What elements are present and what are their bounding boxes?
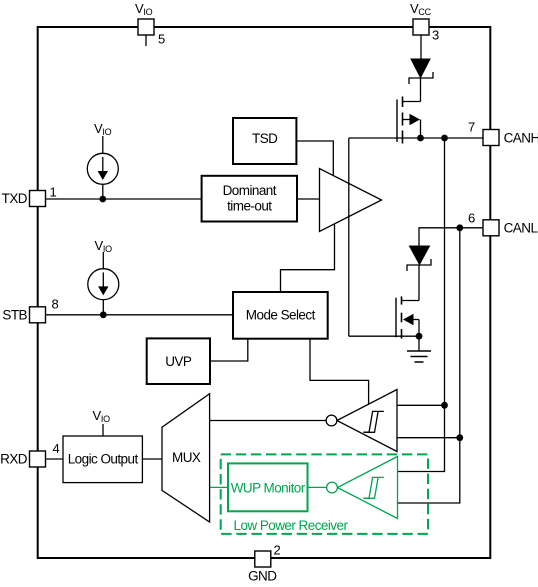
wire Mode Select to receiver enable [310, 339, 369, 405]
svg-text:WUP Monitor: WUP Monitor [231, 480, 306, 495]
zener diode D2 [410, 246, 430, 265]
box UVP [147, 338, 210, 384]
svg-text:Logic Output: Logic Output [68, 452, 139, 467]
transistor M1 (high-side) [396, 100, 398, 143]
wire Dominant time-out to driver input [297, 198, 320, 200]
wire gate rail from driver to MOSFET gates [348, 138, 350, 336]
wire RXD net (pin4 to Logic Output) [45, 458, 63, 460]
op-amp driver [320, 169, 382, 232]
wire current source I1 to TXD net [102, 184, 104, 199]
wire VIO stub above current source I1 [102, 136, 104, 153]
svg-text:TSD: TSD [252, 131, 278, 146]
wire VCC to zener D1 [420, 35, 422, 59]
junction receiver CANL input [456, 434, 463, 441]
svg-text:7: 7 [468, 120, 475, 135]
junction receiver CANH input [441, 402, 448, 409]
wire CANH rail down to receivers [398, 138, 445, 472]
svg-text:8: 8 [52, 297, 59, 312]
wire receiver input from CANH [397, 404, 445, 406]
wire current source I2 to STB net [102, 300, 104, 315]
svg-text:2: 2 [274, 543, 281, 558]
svg-text:MUX: MUX [172, 450, 201, 465]
svg-text:CANH: CANH [504, 130, 538, 145]
wire lower gate/source line [349, 335, 419, 337]
svg-text:CANL: CANL [504, 221, 538, 236]
hysteresis symbol U2 [363, 411, 384, 432]
junction M2 source / ground [416, 333, 423, 340]
wire VIO stub above Logic Output [102, 424, 104, 436]
junction M1 source / CANH [417, 135, 424, 142]
pin 8 STB [30, 307, 46, 323]
svg-text:GND: GND [248, 569, 277, 584]
svg-text:Mode Select: Mode Select [246, 308, 316, 323]
pin 7 CANH [483, 130, 499, 146]
chip boundary [38, 27, 491, 558]
ground [418, 336, 420, 351]
wire VIO stub above current source I2 [102, 252, 104, 269]
svg-text:6: 6 [468, 211, 475, 226]
box Dominant time-out [202, 176, 297, 222]
svg-text:UVP: UVP [165, 354, 192, 369]
junction STB / I2 [100, 311, 107, 318]
svg-text:Low Power Receiver: Low Power Receiver [234, 518, 349, 533]
wire Logic Output to MUX [142, 458, 162, 460]
pin 2 GND [255, 551, 271, 567]
wire receiver output to MUX [210, 420, 327, 422]
svg-text:time-out: time-out [227, 198, 272, 213]
box Mode Select [233, 292, 328, 339]
pin 4 RXD [30, 451, 46, 467]
pin 5 VIO [138, 19, 154, 35]
svg-text:Dominant: Dominant [223, 183, 277, 198]
zener diode D1 [411, 59, 430, 78]
junction CANH rail [441, 135, 448, 142]
svg-text:TXD: TXD [2, 191, 28, 206]
svg-text:3: 3 [432, 28, 439, 43]
wire MUX to WUP monitor (green) [210, 486, 228, 488]
svg-text:STB: STB [2, 307, 27, 322]
wire TSD to driver top [296, 141, 333, 176]
pin 3 VCC [413, 19, 429, 35]
junction CANL rail [456, 224, 463, 231]
MUX [162, 394, 210, 522]
pin 1 TXD [30, 191, 46, 207]
junction TXD / I1 [99, 196, 106, 203]
svg-text:4: 4 [53, 441, 60, 456]
wire STB net (pin8 to Mode Select) [45, 314, 233, 316]
wire receiver input from CANL [397, 437, 460, 439]
low power receiver U3 (green) [337, 457, 397, 519]
wire TXD net (pin1 to Dominant time-out) [45, 198, 202, 200]
wire stub below pin 5 [145, 35, 147, 46]
box TSD [233, 118, 296, 164]
receiver U2 [337, 390, 397, 452]
wire UVP to Mode Select bottom [210, 339, 248, 361]
transistor M2 (low-side) [395, 298, 397, 338]
svg-text:RXD: RXD [0, 452, 28, 467]
wire CANL rail down to receivers [398, 228, 460, 503]
current source I1 [87, 153, 118, 184]
hysteresis symbol U3 [363, 477, 384, 498]
svg-text:5: 5 [158, 32, 165, 47]
svg-text:1: 1 [50, 185, 57, 200]
wire CANH net (gate, source, to pin 7) [349, 137, 483, 139]
wire CANL net (pin 6 to lower driver) [419, 228, 483, 246]
green dashed box Low Power Receiver [221, 454, 428, 534]
current source I2 [88, 269, 119, 300]
wire WUP monitor to LP receiver bubble (green) [308, 486, 327, 488]
box WUP Monitor [228, 463, 308, 511]
box Logic Output [63, 436, 142, 483]
wire driver bottom to Mode Select top [281, 224, 335, 292]
pin 6 CANL [483, 220, 499, 236]
